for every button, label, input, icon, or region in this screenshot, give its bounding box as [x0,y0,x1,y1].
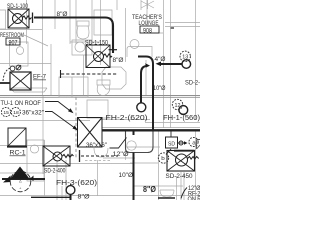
dashed return duct mid [61,73,118,75]
urinal bottom right [160,190,174,197]
main 8 dia duct [34,18,113,54]
svg-text:FH-2-(620): FH-2-(620) [106,114,148,122]
svg-text:15: 15 [3,110,9,116]
elbow duct to lower hall [138,57,153,131]
toilet mid right [97,80,110,96]
big supply box [78,118,103,148]
dashed vertical [75,97,77,158]
FH-2 riser with arrow [141,66,147,103]
toilet under big box [94,148,108,157]
octagon table [102,67,126,89]
12 dia leader [110,138,127,149]
svg-text:SD-2-400: SD-2-400 [44,168,65,175]
RF-2 note [181,188,187,199]
svg-text:FH-1-(560): FH-1-(560) [163,113,200,122]
svg-text:13: 13 [182,55,188,61]
architectural gray layer [0,0,200,200]
toilet top middle [77,21,89,39]
svg-text:8"Ø: 8"Ø [113,57,124,64]
stall bottom left [27,140,44,181]
SD-1-150 diffuser [86,45,112,68]
svg-text:SD: SD [168,141,175,147]
svg-text:10"Ø: 10"Ø [119,172,134,179]
svg-text:FH-3-(620): FH-3-(620) [56,179,97,187]
misc door [117,0,141,10]
FH-2 drop circle [137,103,146,112]
SD-2-400 diffuser [43,146,80,166]
svg-text:907: 907 [9,40,18,46]
flex duct into SD-2-450 [188,157,199,160]
counter near 8dia [127,47,152,58]
svg-text:8"Ø: 8"Ø [78,194,91,200]
RC-1 return grille [7,128,27,147]
svg-text:ON R: ON R [188,197,201,200]
dashed duct from SD-2-400 [81,155,118,157]
vertical exhaust duct [133,130,135,201]
svg-text:908: 908 [143,28,152,34]
SD-2-450 diffuser [167,151,195,172]
counter sink bottom mid [126,131,154,153]
svg-text:Δ: Δ [19,179,22,184]
bench [10,88,47,92]
svg-text:12"Ø: 12"Ø [113,151,130,158]
svg-text:18: 18 [13,110,19,116]
svg-text:SD-2-450: SD-2-450 [166,173,193,180]
fixture left wc [0,10,28,66]
dark floor segs [31,196,175,199]
svg-text:36"x32": 36"x32" [22,109,45,116]
svg-text:36"x16": 36"x16" [86,142,107,149]
svg-text:EF-7: EF-7 [33,73,47,80]
svg-text:4"Ø: 4"Ø [155,56,166,63]
svg-text:SD-2-: SD-2- [185,79,200,86]
svg-text:TU-1 ON ROOF: TU-1 ON ROOF [1,100,42,107]
basin counter [72,40,92,55]
cabinet rects [59,77,108,118]
lounge sink [130,40,139,49]
smoke damper SD [170,130,172,137]
EF-7 exhaust [0,65,31,90]
(12) keynote + FH-1 [172,99,182,109]
ceiling sym top [141,0,154,26]
svg-text:RC-1: RC-1 [10,150,26,157]
main corridor wall double [0,96,200,98]
round diffuser w/ triangle [2,178,45,180]
SD-1-100 diffuser [8,9,33,28]
svg-text:8"Ø: 8"Ø [57,11,68,18]
4 dia duct to (13) outlet [161,63,182,65]
svg-text:10"Ø: 10"Ø [153,86,166,92]
wall lines horizontal [0,23,200,196]
heavy wall line [102,129,200,131]
wall lines vertical [27,0,196,200]
keynote box at right edge [197,140,201,150]
svg-text:8"Ø: 8"Ø [143,185,156,194]
